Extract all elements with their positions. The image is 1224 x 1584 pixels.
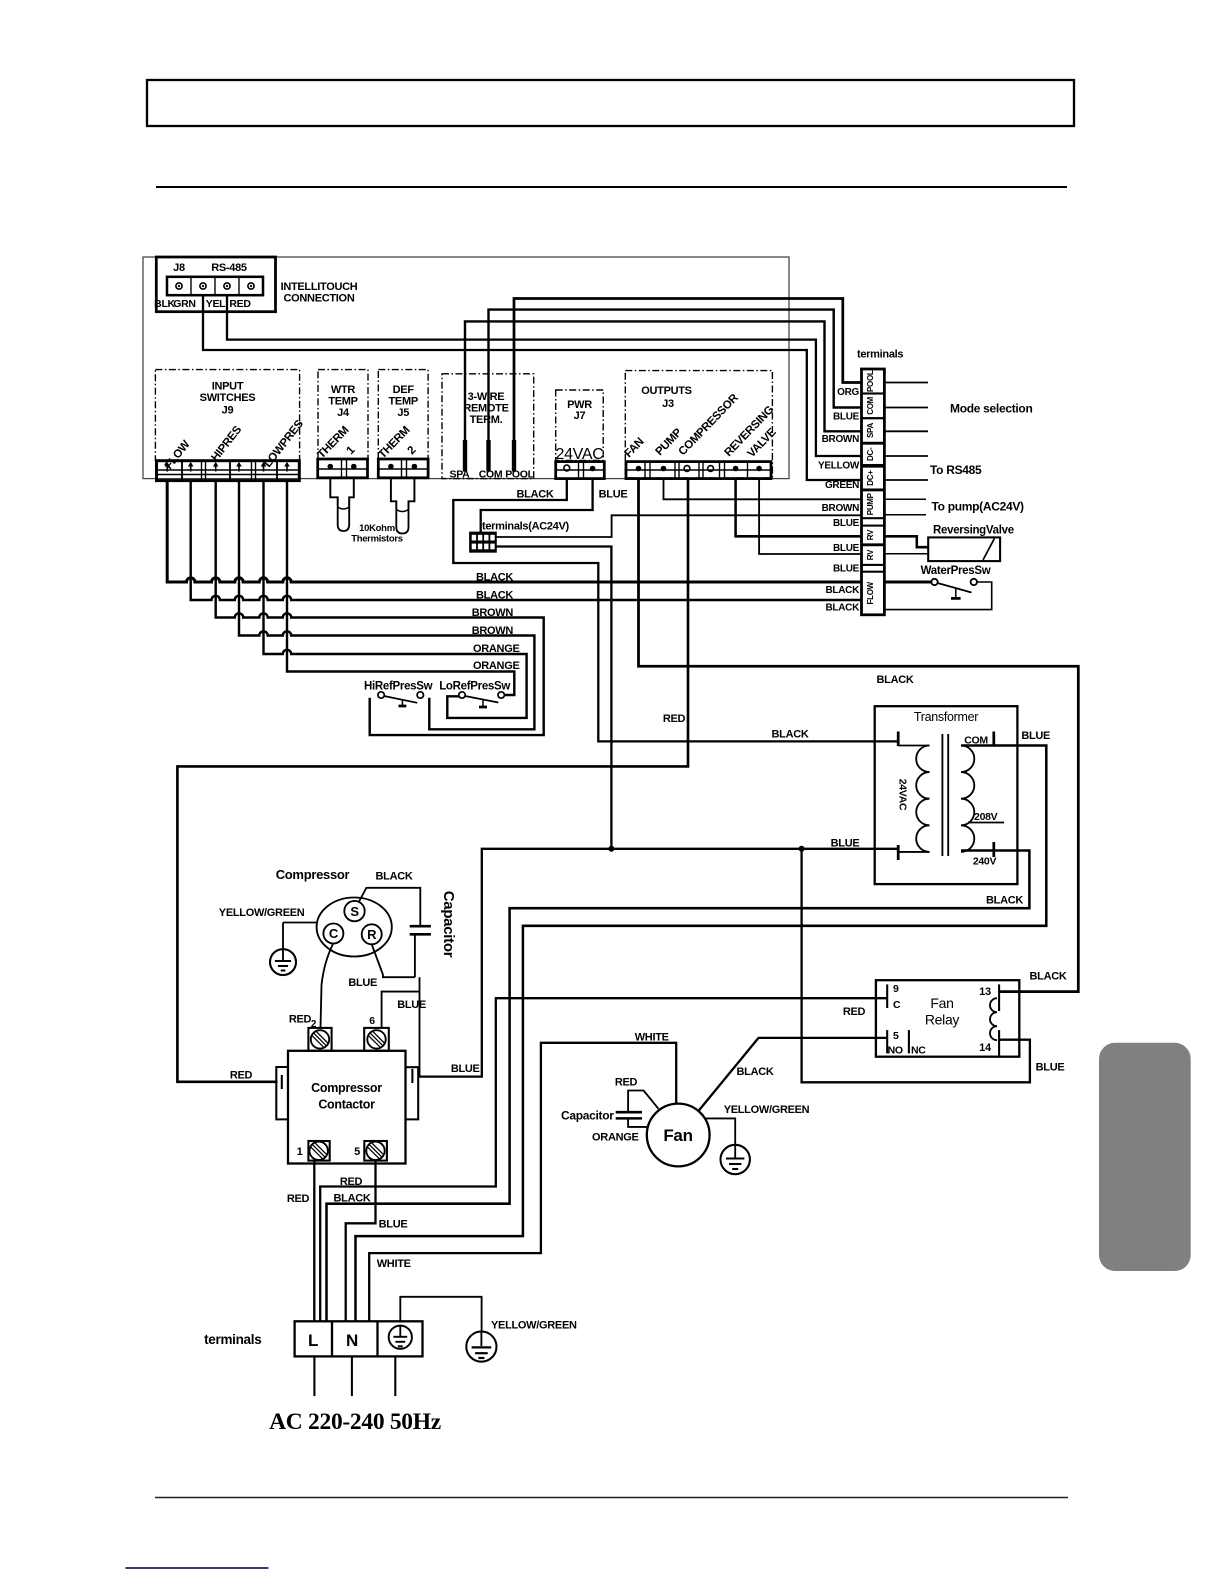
svg-text:ORANGE: ORANGE xyxy=(473,660,519,672)
svg-text:BLACK: BLACK xyxy=(334,1193,371,1205)
svg-text:BLACK: BLACK xyxy=(877,674,914,686)
svg-text:BLUE: BLUE xyxy=(833,518,860,529)
svg-text:RED: RED xyxy=(663,713,686,725)
svg-text:BLUE: BLUE xyxy=(1036,1062,1065,1074)
svg-text:BROWN: BROWN xyxy=(472,625,514,637)
svg-text:DC-: DC- xyxy=(866,447,875,461)
svg-text:Capacitor: Capacitor xyxy=(561,1109,614,1123)
svg-text:DEF: DEF xyxy=(393,384,415,396)
svg-text:BLUE: BLUE xyxy=(833,564,860,575)
svg-text:BLACK: BLACK xyxy=(476,590,513,602)
svg-text:J8: J8 xyxy=(173,262,185,274)
svg-text:RED: RED xyxy=(229,298,251,310)
svg-text:Compressor: Compressor xyxy=(276,867,350,882)
svg-text:terminals: terminals xyxy=(204,1332,261,1347)
svg-text:9: 9 xyxy=(893,983,899,995)
svg-text:J9: J9 xyxy=(222,405,234,417)
svg-text:BLACK: BLACK xyxy=(826,585,861,596)
svg-text:RS-485: RS-485 xyxy=(211,262,247,274)
svg-text:BLACK: BLACK xyxy=(1030,971,1067,983)
svg-text:GREEN: GREEN xyxy=(825,480,859,491)
svg-text:INTELLITOUCH: INTELLITOUCH xyxy=(281,281,358,293)
svg-text:BLUE: BLUE xyxy=(1021,730,1050,742)
svg-text:OUTPUTS: OUTPUTS xyxy=(641,385,691,397)
svg-text:Fan: Fan xyxy=(930,995,953,1011)
svg-text:YEL: YEL xyxy=(206,298,226,310)
svg-text:Fan: Fan xyxy=(663,1126,692,1145)
svg-text:ORANGE: ORANGE xyxy=(592,1132,638,1144)
svg-text:CONNECTION: CONNECTION xyxy=(284,293,355,305)
svg-text:TEMP: TEMP xyxy=(389,396,418,408)
svg-text:YELLOW: YELLOW xyxy=(818,461,860,472)
svg-text:3-WIRE: 3-WIRE xyxy=(468,391,505,403)
svg-text:WaterPresSw: WaterPresSw xyxy=(921,565,991,577)
svg-text:Contactor: Contactor xyxy=(318,1098,375,1112)
svg-text:INPUT: INPUT xyxy=(212,380,244,392)
svg-text:COM: COM xyxy=(866,396,875,414)
svg-text:10Kohm: 10Kohm xyxy=(359,523,395,534)
svg-text:NO: NO xyxy=(888,1044,903,1056)
svg-text:POOL: POOL xyxy=(866,370,875,392)
svg-text:HiRefPresSw: HiRefPresSw xyxy=(364,681,433,693)
svg-text:RED: RED xyxy=(615,1077,638,1089)
svg-text:ORANGE: ORANGE xyxy=(473,643,519,655)
svg-text:PUMP: PUMP xyxy=(866,492,875,515)
svg-text:BLUE: BLUE xyxy=(348,977,377,989)
svg-text:BLUE: BLUE xyxy=(833,543,860,554)
svg-text:N: N xyxy=(346,1331,358,1350)
svg-text:240V: 240V xyxy=(973,856,997,868)
svg-text:SPA: SPA xyxy=(866,423,875,438)
svg-text:BLUE: BLUE xyxy=(379,1219,408,1231)
svg-text:Relay: Relay xyxy=(925,1012,960,1028)
svg-text:2: 2 xyxy=(311,1019,317,1030)
svg-text:BLACK: BLACK xyxy=(517,489,554,501)
svg-text:R: R xyxy=(367,927,377,942)
svg-text:5: 5 xyxy=(354,1146,360,1158)
svg-text:RED: RED xyxy=(289,1014,312,1026)
svg-text:TERM.: TERM. xyxy=(470,414,503,426)
svg-text:ORG: ORG xyxy=(837,387,859,398)
svg-text:14: 14 xyxy=(979,1042,992,1054)
svg-text:J7: J7 xyxy=(574,410,586,422)
svg-text:RED: RED xyxy=(340,1176,363,1188)
svg-text:BROWN: BROWN xyxy=(472,607,514,619)
svg-text:J3: J3 xyxy=(662,398,674,410)
svg-text:RV: RV xyxy=(866,549,875,560)
svg-text:BLACK: BLACK xyxy=(737,1066,774,1078)
svg-text:GRN: GRN xyxy=(173,298,195,310)
svg-text:Capacitor: Capacitor xyxy=(440,891,457,958)
svg-text:terminals(AC24V): terminals(AC24V) xyxy=(482,521,570,533)
svg-text:BLUE: BLUE xyxy=(833,412,860,423)
svg-text:FLOW: FLOW xyxy=(866,581,875,604)
svg-text:BLACK: BLACK xyxy=(476,572,513,584)
svg-text:6: 6 xyxy=(369,1015,375,1027)
svg-text:To RS485: To RS485 xyxy=(930,463,982,477)
svg-text:YELLOW/GREEN: YELLOW/GREEN xyxy=(219,907,305,919)
svg-text:BLUE: BLUE xyxy=(451,1063,480,1075)
svg-text:YELLOW/GREEN: YELLOW/GREEN xyxy=(724,1104,810,1116)
svg-text:C: C xyxy=(893,999,901,1011)
svg-text:NC: NC xyxy=(911,1044,926,1056)
svg-text:Mode selection: Mode selection xyxy=(950,402,1032,416)
svg-text:WHITE: WHITE xyxy=(377,1258,411,1270)
svg-text:TEMP: TEMP xyxy=(328,396,357,408)
svg-text:To pump(AC24V): To pump(AC24V) xyxy=(932,500,1025,514)
svg-text:BLACK: BLACK xyxy=(826,603,861,614)
svg-text:Transformer: Transformer xyxy=(914,710,978,724)
svg-text:208V: 208V xyxy=(974,811,998,823)
svg-text:DC+: DC+ xyxy=(866,470,875,486)
svg-text:YELLOW/GREEN: YELLOW/GREEN xyxy=(491,1320,577,1332)
svg-text:RED: RED xyxy=(230,1070,253,1082)
svg-text:SWITCHES: SWITCHES xyxy=(200,392,256,404)
svg-text:ReversingValve: ReversingValve xyxy=(933,525,1014,537)
svg-text:C: C xyxy=(329,926,339,941)
svg-text:BLACK: BLACK xyxy=(772,729,809,741)
svg-text:1: 1 xyxy=(297,1146,303,1158)
svg-text:RED: RED xyxy=(287,1193,310,1205)
svg-text:BLACK: BLACK xyxy=(986,895,1023,907)
svg-text:WHITE: WHITE xyxy=(635,1032,669,1044)
svg-text:REMOTE: REMOTE xyxy=(463,403,508,415)
svg-text:POOL: POOL xyxy=(505,469,534,481)
svg-text:BROWN: BROWN xyxy=(822,434,859,445)
svg-text:BLUE: BLUE xyxy=(397,999,426,1011)
svg-text:5: 5 xyxy=(893,1030,899,1042)
svg-text:BLUE: BLUE xyxy=(599,489,628,501)
svg-text:WTR: WTR xyxy=(331,384,356,396)
svg-text:BROWN: BROWN xyxy=(822,503,859,514)
svg-text:terminals: terminals xyxy=(857,349,903,361)
svg-text:RV: RV xyxy=(866,529,875,540)
svg-text:Thermistors: Thermistors xyxy=(351,534,403,545)
svg-text:L: L xyxy=(308,1331,318,1350)
svg-text:Compressor: Compressor xyxy=(311,1081,382,1095)
svg-text:J4: J4 xyxy=(337,407,350,419)
svg-text:LoRefPresSw: LoRefPresSw xyxy=(439,681,510,693)
svg-text:RED: RED xyxy=(843,1006,866,1018)
svg-text:BLACK: BLACK xyxy=(376,871,413,883)
svg-text:24VAC: 24VAC xyxy=(897,779,909,811)
svg-text:S: S xyxy=(350,904,359,919)
svg-text:13: 13 xyxy=(979,986,991,998)
svg-text:SPA: SPA xyxy=(450,469,471,481)
svg-text:AC 220-240 50Hz: AC 220-240 50Hz xyxy=(269,1409,441,1435)
svg-text:J5: J5 xyxy=(397,407,409,419)
svg-text:COM: COM xyxy=(479,469,503,481)
